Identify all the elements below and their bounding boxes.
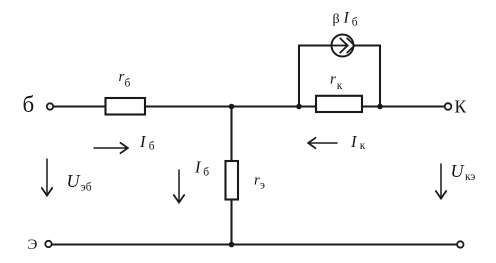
resistor R r_к	[316, 96, 362, 112]
svg-text:б: б	[352, 17, 358, 29]
wire: node to r_к	[299, 105, 316, 107]
terminal circle Э	[45, 241, 51, 247]
svg-text:I: I	[139, 132, 147, 151]
current label I_к	[350, 132, 366, 152]
junction node: right end of current-source branch	[377, 104, 383, 110]
svg-text:кэ: кэ	[465, 171, 475, 183]
current label I_б (emitter branch)	[194, 158, 209, 179]
wire: bottom rail right segment	[232, 243, 458, 245]
current source arrow shaft	[332, 45, 346, 47]
svg-text:к: к	[360, 140, 366, 152]
wire: node to К terminal	[380, 105, 445, 107]
junction node: bottom of r_э branch	[229, 242, 235, 248]
svg-text:I: I	[194, 158, 202, 177]
value label β I_б	[333, 10, 358, 29]
terminal circle К	[445, 103, 452, 110]
wire: б terminal to resistor r_б	[54, 105, 105, 107]
current label I_б	[139, 132, 155, 153]
svg-text:к: к	[337, 80, 343, 92]
svg-text:эб: эб	[81, 182, 92, 194]
value label r_к	[330, 72, 343, 92]
wire: r_э to bottom rail	[230, 200, 232, 245]
wire: r_к to right node	[362, 105, 380, 107]
svg-text:э: э	[260, 179, 265, 191]
terminal circle bottom-right	[457, 241, 463, 247]
wire: left side of current source loop	[299, 46, 331, 107]
wire: center node to left node of r_к	[232, 105, 300, 107]
arrow: collector current I_к direction	[308, 138, 337, 148]
terminal circle б	[47, 103, 53, 109]
voltage label U_эб	[67, 171, 92, 194]
svg-text:I: I	[343, 10, 350, 27]
svg-text:U: U	[451, 161, 465, 181]
current source chevron 2	[347, 38, 354, 52]
svg-text:б: б	[203, 166, 209, 178]
value label r_б	[119, 69, 131, 89]
junction node: left end of current-source branch	[296, 104, 302, 110]
wire: center node down to r_э	[230, 107, 232, 162]
wire: r_б to center node	[145, 105, 232, 107]
svg-text:К: К	[455, 97, 467, 117]
value label r_э	[254, 173, 265, 192]
resistor R r_б	[106, 98, 146, 115]
arrow: base current I_б direction	[94, 143, 128, 153]
current source U (circle) βIб	[332, 35, 354, 57]
junction node: top of r_э branch	[229, 104, 235, 110]
svg-text:r: r	[330, 72, 336, 88]
resistor R r_э (vertical)	[226, 161, 239, 200]
wire: bottom rail left segment	[52, 243, 232, 245]
svg-text:U: U	[67, 171, 81, 191]
voltage label U_кэ	[451, 161, 476, 183]
wire: right side of current source loop	[354, 46, 380, 107]
svg-text:б: б	[125, 77, 131, 89]
svg-text:Э: Э	[28, 237, 38, 253]
svg-text:β: β	[333, 12, 340, 27]
arrow: emitter branch current I_б direction	[174, 170, 184, 203]
arrow: voltage U_эб direction	[42, 159, 52, 196]
svg-text:б: б	[149, 141, 155, 153]
svg-text:I: I	[350, 132, 358, 151]
svg-text:б: б	[23, 92, 35, 117]
arrow: voltage U_кэ direction	[436, 164, 446, 199]
current source chevron 1	[340, 38, 347, 52]
